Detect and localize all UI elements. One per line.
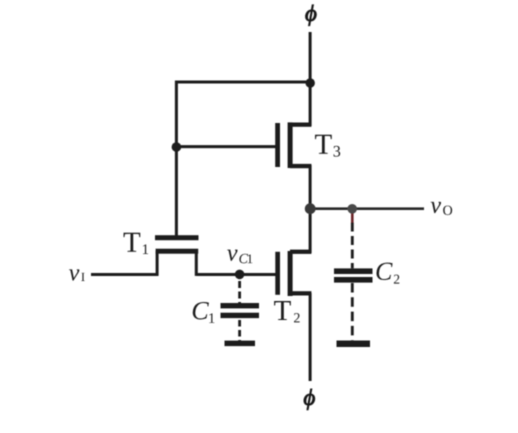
label vI (69, 269, 85, 281)
wire: clock feed vertical into T3 drain (309, 32, 312, 126)
ground (below C1) (225, 341, 256, 347)
wire: dashed lead C1 to ground (238, 320, 241, 341)
capacitor C1 (221, 303, 260, 318)
wire: vI input lead (91, 273, 158, 276)
wire: T3 source down to output node (309, 165, 312, 209)
label T3 (315, 135, 340, 157)
label vO (431, 202, 452, 215)
node: C2 tap junction (347, 204, 357, 214)
wire: dashed lead C2 to ground (351, 283, 354, 341)
node: vC1 junction (235, 270, 245, 280)
label T1 (124, 233, 149, 254)
label T2 (274, 301, 300, 322)
node: T3 gate junction (172, 142, 182, 152)
wire: T2 source down to bottom clock (309, 293, 312, 381)
transistor T3 (275, 122, 311, 168)
node: output junction (clock column) (305, 203, 316, 214)
ground (below C2) (337, 341, 371, 348)
label vC1 (227, 250, 252, 264)
wire: output horizontal to vO terminal (310, 207, 424, 210)
wire: T3 gate lead (176, 145, 275, 148)
wire: output node down to T2 drain (309, 208, 312, 253)
wire: dashed lead output node to C2 (first dash scan-red) (351, 214, 354, 269)
clock phi label (top) (306, 5, 317, 26)
transistor T2 (275, 250, 311, 296)
wire: left vertical (bootstrap to T1 gate) (175, 81, 178, 236)
label C2 (376, 263, 399, 284)
wire: dashed lead vC1 node to C1 (238, 281, 241, 304)
wire: bootstrap top horizontal (175, 81, 311, 84)
capacitor C2 (334, 268, 373, 282)
node: junction clock line / bootstrap wire (306, 78, 315, 87)
transistor T1 (155, 235, 199, 276)
clock phi label (bottom) (304, 389, 315, 410)
label C1 (193, 302, 215, 323)
wire: T1 source to T2 gate (vC1 net) (197, 273, 277, 276)
